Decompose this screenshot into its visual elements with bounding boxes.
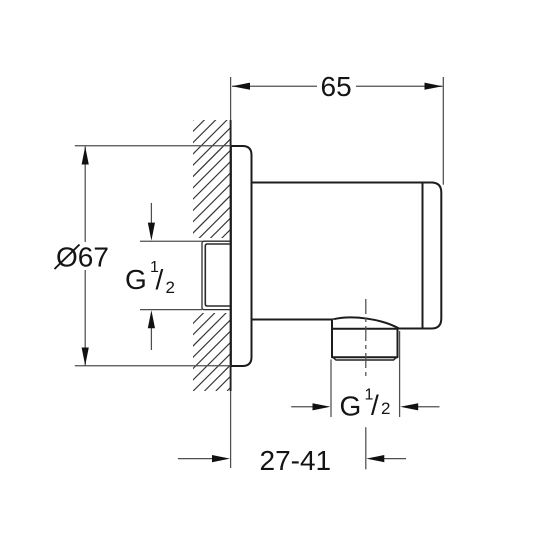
svg-text:G: G bbox=[340, 391, 362, 422]
wire extension line wall bottom bbox=[230, 391, 232, 468]
arrow 27-41 pointing right bbox=[212, 455, 230, 462]
wire extension line flange top bbox=[75, 145, 231, 147]
node inlet socket G1/2 inner core line bbox=[205, 244, 230, 306]
svg-text:G: G bbox=[125, 264, 147, 295]
wire 27-41 left arrow shaft bbox=[178, 458, 214, 460]
wire outlet centerline dashed bbox=[365, 299, 367, 377]
node inlet socket G1/2 outer thread line bbox=[202, 241, 231, 309]
svg-text:/: / bbox=[156, 264, 164, 295]
wire wall face line bbox=[230, 120, 232, 391]
wire 27-41 right arrow shaft bbox=[383, 458, 406, 460]
svg-text:/: / bbox=[371, 390, 379, 421]
wire extension line front face bbox=[442, 77, 444, 185]
wire extension line flange bottom bbox=[75, 365, 231, 367]
arrow outlet right pointing left bbox=[400, 403, 418, 410]
white mask behind diameter 67 bbox=[54, 242, 110, 270]
wire inlet upper reference line bbox=[140, 240, 202, 242]
wall hatching lower bbox=[0, 110, 519, 391]
arrow outlet left pointing right bbox=[313, 403, 331, 410]
wall hatching upper bbox=[0, 110, 519, 391]
wire extension line wall top bbox=[230, 77, 232, 120]
svg-text:65: 65 bbox=[321, 71, 352, 102]
arrow inlet down bbox=[148, 223, 155, 241]
wire inlet arrow lower shaft bbox=[150, 327, 152, 350]
wire dimension line diameter 67 bbox=[84, 147, 86, 366]
arrow 65 right bbox=[425, 83, 443, 90]
wire nipple chamfer line bbox=[333, 357, 397, 360]
wire extension line nipple left bbox=[330, 360, 332, 418]
arrow d67 up bbox=[82, 147, 89, 165]
wire front cap line bbox=[422, 184, 424, 328]
wire outlet centerline solid lower bbox=[365, 427, 367, 469]
wire extension line nipple right bbox=[399, 331, 401, 417]
node escutcheon flange bbox=[231, 146, 252, 366]
svg-text:2: 2 bbox=[166, 278, 175, 297]
svg-text:27-41: 27-41 bbox=[260, 445, 332, 476]
svg-text:O67: O67 bbox=[56, 242, 109, 273]
wire outlet G1/2 left arrow shaft bbox=[291, 406, 315, 408]
arrow 65 left bbox=[232, 83, 250, 90]
arrow inlet up bbox=[148, 310, 155, 328]
arrow d67 down bbox=[82, 348, 89, 366]
wire nipple shoulder line bbox=[332, 328, 398, 330]
wire inlet arrow upper shaft bbox=[150, 203, 152, 224]
wire inlet lower reference line bbox=[140, 309, 202, 311]
node body cylinder bbox=[252, 183, 442, 329]
node outlet nipple G1/2 bbox=[332, 320, 398, 358]
arrow 27-41 pointing left bbox=[366, 455, 384, 462]
white mask behind 65 bbox=[317, 72, 356, 99]
wire outlet G1/2 right arrow shaft bbox=[416, 406, 440, 408]
wire dimension line 65 bbox=[232, 85, 443, 87]
svg-text:2: 2 bbox=[381, 399, 390, 418]
